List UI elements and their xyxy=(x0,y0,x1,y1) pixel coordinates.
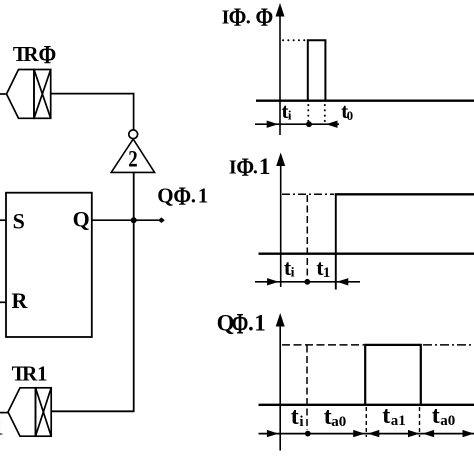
svg-text:.: . xyxy=(248,311,254,336)
svg-text:1: 1 xyxy=(259,154,271,179)
wire: Q output xyxy=(92,219,159,221)
svg-text:i: i xyxy=(299,414,303,430)
svg-text:Q: Q xyxy=(157,184,173,208)
terminal QPhi.1 xyxy=(158,217,165,223)
diagram2 axis xyxy=(276,153,285,288)
wire: S input xyxy=(0,219,6,221)
diagram2 rising edge xyxy=(335,194,337,289)
diagram1 baseline xyxy=(256,99,474,101)
svg-text:Q: Q xyxy=(73,207,90,232)
svg-text:1: 1 xyxy=(0,416,4,440)
diagram3 dash-dot level line right xyxy=(423,344,474,346)
diagram1 dimension line xyxy=(255,121,339,128)
diagram2 label t1 xyxy=(316,255,330,281)
transducer TR1 label xyxy=(12,362,48,386)
svg-text:1: 1 xyxy=(37,362,48,386)
svg-text:Φ: Φ xyxy=(236,154,254,182)
svg-text:.: . xyxy=(246,7,251,29)
svg-text:1: 1 xyxy=(198,184,209,208)
diagram2 dash-dot level line xyxy=(282,193,334,195)
svg-text:S: S xyxy=(13,208,25,233)
junction node QPhi.1 xyxy=(131,217,137,223)
svg-text:i: i xyxy=(291,266,295,281)
svg-text:1: 1 xyxy=(254,311,265,336)
diagram3 dashed dropline pulse end xyxy=(419,407,421,437)
diagram3 label ti xyxy=(291,404,304,430)
diagram1 axis xyxy=(276,3,285,135)
diagram1 label IPhi.Phi xyxy=(222,4,274,32)
diagram3 axis xyxy=(276,313,285,451)
wire: TRPhi output to inverter input xyxy=(51,94,134,130)
svg-text:a0: a0 xyxy=(331,414,346,430)
inverter 2 xyxy=(111,139,154,172)
diagram2 dimension line xyxy=(255,278,360,285)
inverter bubble xyxy=(129,130,138,139)
svg-text:.: . xyxy=(191,184,196,208)
wire: R input xyxy=(0,301,6,303)
svg-text:0: 0 xyxy=(347,108,354,123)
svg-text:a0: a0 xyxy=(440,413,455,429)
diagram2 label IPhi.1 xyxy=(229,154,271,183)
svg-text:Φ: Φ xyxy=(173,183,191,211)
diagram1 label ti xyxy=(282,99,292,123)
svg-text:t: t xyxy=(382,403,390,429)
svg-text:R: R xyxy=(23,42,39,66)
svg-text:1: 1 xyxy=(323,265,331,281)
wire: TR1 output to bus xyxy=(51,410,134,412)
wire: TRPhi left lead xyxy=(0,93,7,95)
diagram3 label ta0 second xyxy=(432,403,456,429)
svg-text:Φ: Φ xyxy=(39,42,57,70)
diagram1 label t0 xyxy=(341,99,353,123)
node label QPhi.1 xyxy=(157,183,208,211)
diagram1 dotted droplines xyxy=(308,105,325,121)
diagram1 pulse waveform xyxy=(308,40,326,100)
diagram3 pulse waveform xyxy=(365,345,421,405)
diagram2 dashed dropline xyxy=(306,195,308,284)
diagram1 dotted level line xyxy=(283,39,307,41)
diagram3 dimension line xyxy=(259,430,474,437)
diagram2 high level waveform xyxy=(335,193,474,195)
diagram3 dashed dropline ti xyxy=(306,346,308,431)
svg-text:R: R xyxy=(12,288,29,313)
diagram3 baseline xyxy=(259,404,474,406)
transducer TR1 xyxy=(8,388,51,436)
svg-text:2: 2 xyxy=(128,146,137,172)
svg-text:i: i xyxy=(288,108,292,123)
diagram3 label QPhi.1 xyxy=(217,306,266,340)
svg-text:R: R xyxy=(22,362,38,386)
svg-text:Φ: Φ xyxy=(232,306,249,340)
svg-text:t: t xyxy=(432,403,440,429)
transducer TRPhi label xyxy=(13,42,56,70)
svg-text:a1: a1 xyxy=(391,413,406,429)
diagram2 baseline xyxy=(259,252,474,254)
diagram3 dashed level line left xyxy=(282,344,364,346)
diagram3 label ta0 first xyxy=(324,404,347,430)
wire: inverter output vertical bus xyxy=(133,172,135,411)
transducer TRPhi xyxy=(7,70,51,119)
diagram2 label ti xyxy=(284,255,295,281)
diagram3 label ta1 xyxy=(382,403,406,429)
svg-text:t: t xyxy=(291,404,299,430)
diagram3 dashed dropline pulse start xyxy=(365,407,367,437)
svg-text:Φ: Φ xyxy=(256,4,274,32)
SR latch xyxy=(6,193,92,337)
wire: TR1 left lead xyxy=(0,412,8,414)
svg-text:.: . xyxy=(253,157,258,179)
svg-text:Φ: Φ xyxy=(229,4,247,32)
